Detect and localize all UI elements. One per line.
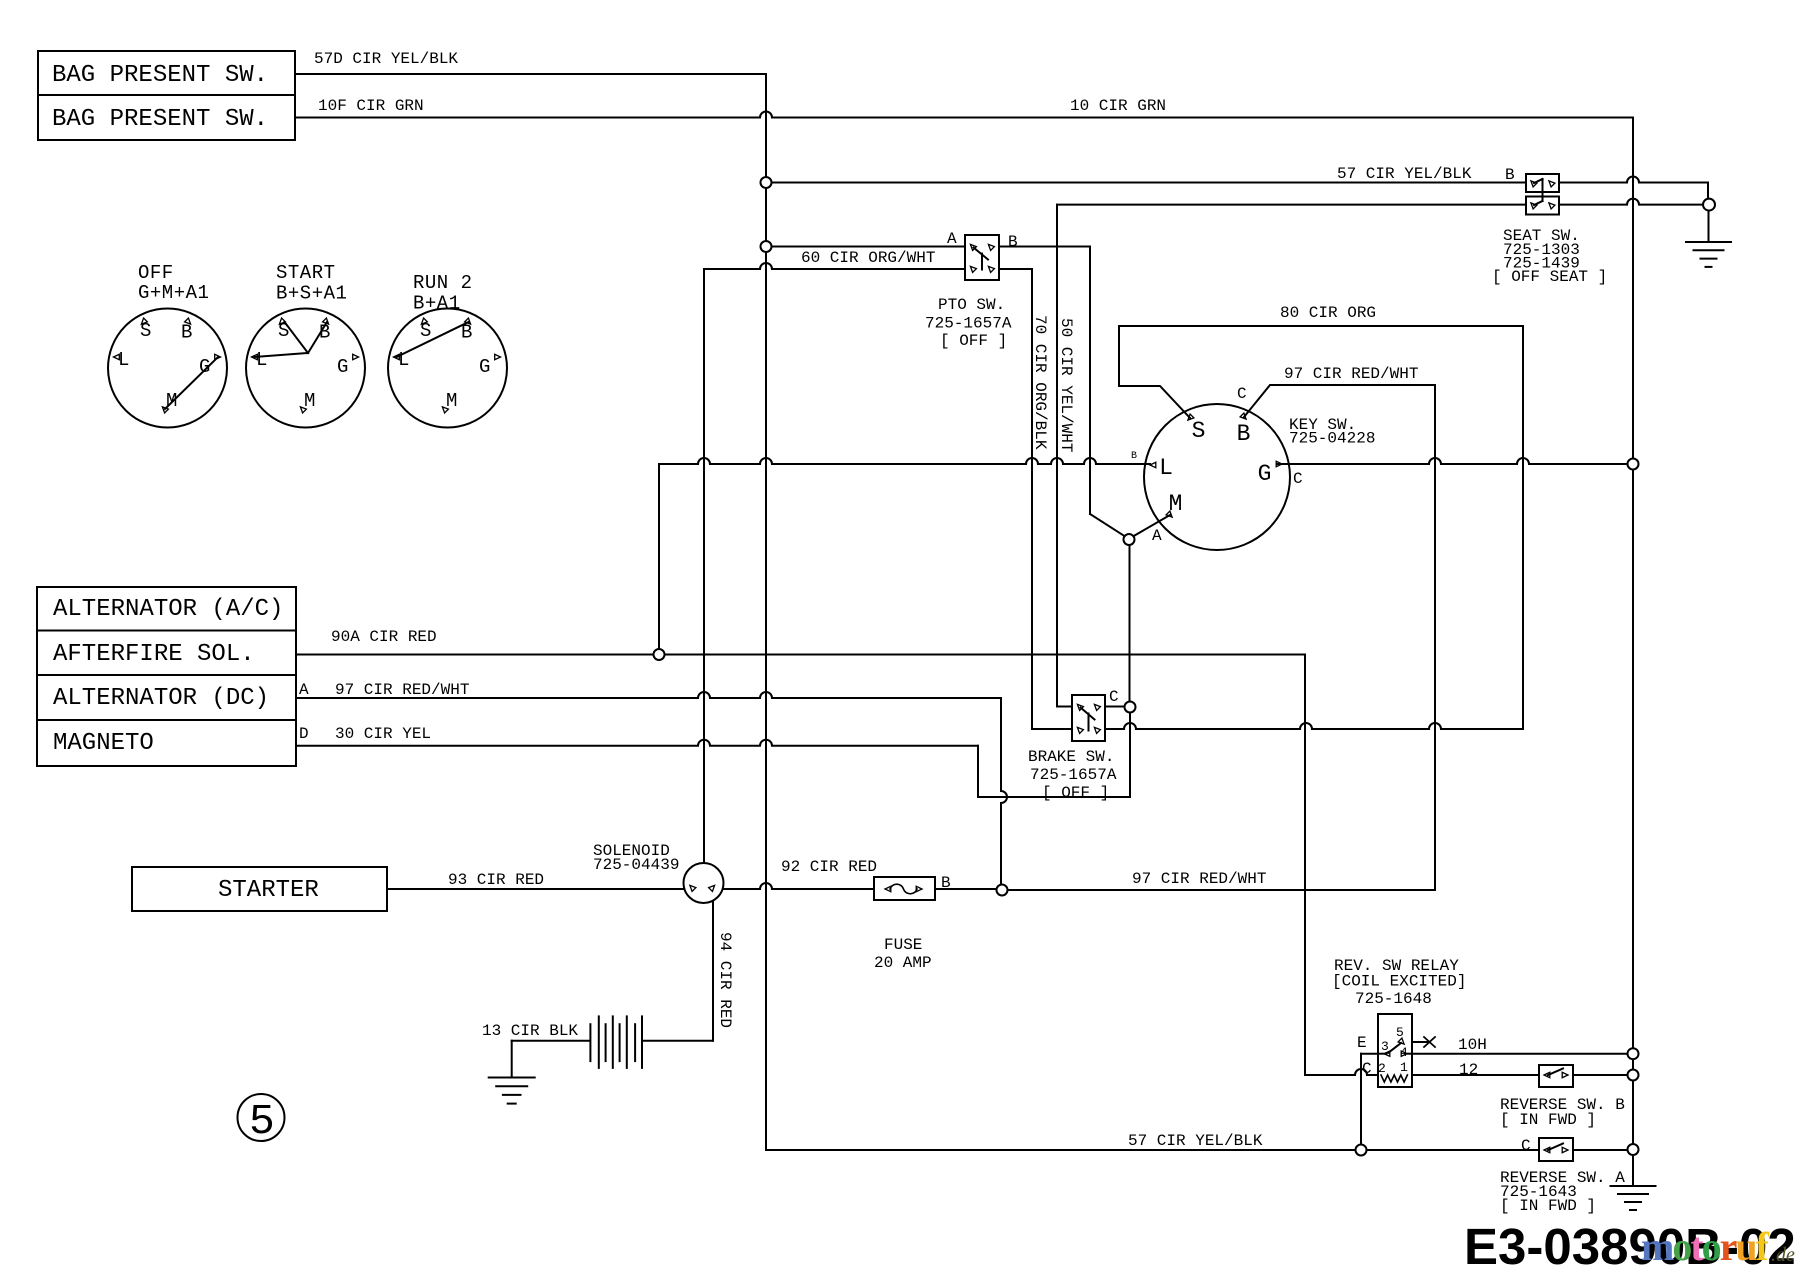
key switch terminal S [1188,414,1194,420]
svg-text:MAGNETO: MAGNETO [53,730,154,757]
RUN 2 terminal B [465,318,471,324]
svg-text:A: A [299,681,309,699]
wire brake top-right pin to node [1105,706,1125,708]
wire key G terminal right to far-right vertical [1277,458,1633,464]
svg-text:80 CIR ORG: 80 CIR ORG [1280,304,1376,322]
wire 97 CIR RED/WHT: alternator DC to bottom junction [296,692,1001,698]
relay pin 4 [1401,1051,1407,1056]
START terminal G [353,354,359,359]
svg-text:90A CIR RED: 90A CIR RED [331,628,437,646]
key switch terminal M [1166,511,1172,517]
svg-text:L: L [398,349,410,371]
component box: alternator(DC) [37,675,296,720]
RUN 2 terminal L [394,354,400,359]
svg-text:S: S [420,320,432,342]
svg-text:.de: .de [1771,1244,1795,1266]
wire 70 CIR ORG/BLK: PTO lower-right down to brake switch [999,268,1032,270]
svg-text:B: B [1131,451,1137,462]
key switch terminal G [1276,461,1282,466]
svg-text:PTO SW.: PTO SW. [938,296,1005,314]
wire key M terminal to node [1132,515,1170,537]
wire 57 CIR YEL/BLK seat upper segment [766,182,1526,184]
OFF contact line [165,357,218,409]
callout circle 5 [238,1094,285,1141]
svg-text:97 CIR RED/WHT: 97 CIR RED/WHT [1132,870,1266,888]
wire E: relay pin3 down to 57 line [1360,1054,1362,1145]
svg-text:B: B [1008,233,1018,251]
wire 97 CIR RED/WHT: key B terminal right and down to bottom line [1244,385,1435,890]
svg-text:12: 12 [1459,1061,1478,1079]
svg-text:57 CIR YEL/BLK: 57 CIR YEL/BLK [1337,165,1472,183]
wire 50 CIR YEL/WHT: seat lower corner down to brake switch [1056,205,1058,707]
ground symbol at battery [489,1077,535,1079]
svg-text:[ OFF ]: [ OFF ] [1042,784,1109,802]
svg-text:M: M [304,390,316,412]
node A below key switch M [1124,534,1135,545]
svg-text:M: M [1169,491,1183,517]
battery B1 plates [598,1016,600,1068]
svg-text:30 CIR YEL: 30 CIR YEL [335,725,431,743]
component box: afterfire sol. [37,631,296,676]
svg-text:[ OFF ]: [ OFF ] [940,332,1007,350]
svg-text:B: B [941,874,951,892]
svg-text:BAG PRESENT SW.: BAG PRESENT SW. [52,62,268,89]
svg-text:ALTERNATOR (A/C): ALTERNATOR (A/C) [53,596,283,623]
node at brake switch common C [1125,702,1136,713]
svg-text:[ OFF SEAT ]: [ OFF SEAT ] [1492,268,1607,286]
svg-text:C: C [1362,1060,1372,1078]
component box: alternator(A/C) [37,587,296,631]
svg-text:G: G [479,356,491,378]
svg-text:97 CIR RED/WHT: 97 CIR RED/WHT [335,681,469,699]
ground symbol bottom right [1611,1185,1656,1187]
START terminal M [300,407,306,413]
svg-text:5: 5 [249,1097,275,1146]
START terminal S [279,318,285,324]
svg-text:B: B [319,322,331,344]
svg-text:70 CIR ORG/BLK: 70 CIR ORG/BLK [1031,315,1049,450]
wire seat lower to ring terminal [1550,199,1703,205]
reverse switch B box [1539,1065,1573,1087]
relay pin3 stub [1378,1053,1386,1055]
X no-connect mark [1424,1037,1435,1047]
relay pin4 stub [1405,1053,1412,1055]
node 10H at right vertical [1628,1048,1639,1059]
key switch terminal L [1150,462,1156,467]
wire 10F/10 CIR GRN: box2 right to far-right vertical [295,112,1633,118]
node at fuse/97 junction [997,885,1008,896]
key switch S1 body circle [1144,404,1290,550]
svg-text:C: C [1521,1137,1531,1155]
svg-text:725-1657A: 725-1657A [925,315,1012,333]
node junction 57D / 60 CIR wire [761,241,772,252]
wire ring terminal to ground [1708,211,1710,242]
RUN 2 contact line [397,322,469,357]
svg-text:725-04439: 725-04439 [593,856,679,874]
component box: starter [132,867,387,911]
svg-text:S: S [1192,418,1206,444]
START contact line [285,322,309,353]
wire 12: relay coil to reverse switch B [1412,1074,1539,1076]
OFF terminal M [162,407,168,413]
seat switch SW3 upper box [1526,174,1559,192]
svg-text:B+S+A1: B+S+A1 [276,283,347,305]
svg-text:START: START [276,262,336,284]
svg-text:10F CIR GRN: 10F CIR GRN [318,97,424,115]
wire 92 CIR RED: solenoid to fuse [724,883,875,889]
component box: bag present switch 1 [38,51,295,95]
ground symbol top right (seat) [1686,241,1731,243]
svg-text:5: 5 [1396,1025,1404,1040]
wire node A down to brake switch node [1129,545,1131,702]
START terminal L [252,354,258,359]
key position diagram: START circle [246,309,365,428]
svg-text:94 CIR RED: 94 CIR RED [716,932,734,1028]
wire PTO pin B down to key M node [999,246,1090,248]
key position diagram: RUN 2 circle [388,309,507,428]
svg-text:50 CIR YEL/WHT: 50 CIR YEL/WHT [1057,318,1075,452]
wire 10H: relay pin4 to right vertical [1412,1053,1627,1055]
wire 97 CIR RED/WHT bottom: node to riser [1008,889,1435,891]
wire 60 CIR ORG/WHT: node to PTO pin A [766,246,965,248]
wire PTO lower-left to solenoid top (vertical x=704) [704,263,965,269]
wire key L terminal left segment with hops [659,458,1150,464]
svg-text:RUN 2: RUN 2 [413,272,473,294]
svg-text:A: A [947,230,957,248]
wire 30 CIR YEL: magneto to brake node [296,740,978,746]
svg-text:S: S [140,320,152,342]
component box: magneto [37,720,296,766]
svg-text:B: B [1505,166,1515,184]
wire reverse switch B to right vertical [1573,1074,1627,1076]
wire 94 CIR RED: solenoid down to battery [712,893,714,1041]
relay lever 3-5 [1388,1043,1401,1053]
solenoid K1 (725-04439) body [684,863,724,903]
OFF terminal L [114,354,120,359]
fuse F1 body [874,877,935,900]
svg-text:G: G [199,356,211,378]
svg-text:4: 4 [1400,1045,1408,1060]
wire 93 CIR RED: starter to solenoid [387,888,684,890]
reverse switch A box (725-1643) [1539,1138,1573,1161]
wire seat lower segment [1057,204,1526,206]
relay coil [1381,1075,1407,1082]
svg-text:57D CIR YEL/BLK: 57D CIR YEL/BLK [314,50,458,68]
seat switch SW3 lower box [1526,197,1559,215]
svg-text:13 CIR BLK: 13 CIR BLK [482,1022,578,1040]
START contact line [255,353,309,357]
RUN 2 terminal M [442,407,448,413]
svg-text:M: M [166,390,178,412]
START terminal B [323,318,329,324]
svg-text:725-04228: 725-04228 [1289,430,1375,448]
svg-text:OFF: OFF [138,262,174,284]
svg-text:FUSE: FUSE [884,936,922,954]
svg-text:[ IN FWD ]: [ IN FWD ] [1500,1197,1596,1215]
svg-text:725-1657A: 725-1657A [1030,766,1117,784]
RUN 2 terminal S [421,318,427,324]
OFF terminal B [185,318,191,324]
svg-text:10 CIR GRN: 10 CIR GRN [1070,97,1166,115]
OFF terminal S [141,318,147,324]
svg-text:[ IN FWD ]: [ IN FWD ] [1500,1111,1596,1129]
svg-text:C: C [1109,688,1119,706]
svg-text:B: B [181,322,193,344]
node on far-right vertical at L-G line [1628,459,1639,470]
svg-text:L: L [118,349,130,371]
svg-text:725-1648: 725-1648 [1355,990,1432,1008]
svg-text:L: L [1159,455,1173,481]
ring terminal at seat ground [1703,199,1715,211]
svg-text:STARTER: STARTER [218,877,319,904]
svg-text:B+A1: B+A1 [413,293,461,315]
START contact line [308,322,327,353]
node 57 at right vertical [1628,1144,1639,1155]
svg-text:1: 1 [1400,1060,1408,1075]
reverse switch relay K2 (725-1648) box [1378,1014,1412,1087]
seat switch mechanical link [1542,179,1544,201]
svg-text:57 CIR YEL/BLK: 57 CIR YEL/BLK [1128,1132,1263,1150]
wire 13 CIR BLK: battery to ground [512,1040,590,1042]
node on 90A wire [654,649,665,660]
wire 90A CIR RED: afterfire to rev relay coil [296,654,1305,656]
relay pin 5 [1398,1038,1404,1044]
brake switch SW2 (725-1657A) [1072,695,1105,741]
svg-text:BAG PRESENT SW.: BAG PRESENT SW. [52,106,268,133]
svg-text:93 CIR RED: 93 CIR RED [448,871,544,889]
svg-text:AFTERFIRE SOL.: AFTERFIRE SOL. [53,641,255,668]
node junction 57D / seat wire [761,177,772,188]
svg-text:3: 3 [1381,1039,1389,1054]
svg-text:10H: 10H [1458,1036,1487,1054]
svg-text:G: G [337,356,349,378]
svg-text:92 CIR RED: 92 CIR RED [781,858,877,876]
svg-text:S: S [278,320,290,342]
svg-text:motoruf: motoruf [1641,1224,1770,1269]
svg-text:2: 2 [1378,1061,1386,1076]
key switch terminal B [1240,413,1246,419]
svg-text:C: C [1237,385,1247,403]
relay pin 3 [1384,1051,1390,1056]
svg-text:E: E [1357,1034,1367,1052]
RUN 2 terminal G [495,354,501,359]
PTO switch SW1 (725-1657A) [965,235,999,280]
key position diagram: OFF circle [108,309,227,428]
svg-text:B: B [461,322,473,344]
node on 57 line below relay [1356,1145,1367,1156]
svg-text:D: D [299,725,309,743]
svg-text:ALTERNATOR (DC): ALTERNATOR (DC) [53,685,269,712]
svg-text:M: M [446,390,458,412]
wire fuse to node [935,888,996,890]
component box: bag present switch 2 [38,95,295,140]
wire 80 CIR ORG: key S terminal loop to brake switch lower-right [1119,326,1523,729]
OFF terminal G [215,354,221,359]
svg-text:BRAKE SW.: BRAKE SW. [1028,748,1114,766]
svg-text:G: G [1258,461,1272,487]
wire 57D CIR YEL/BLK: box1 to corner, down long vertical to bottom 57 line [295,73,766,75]
wire seat upper to ground corner [1550,177,1708,183]
svg-text:L: L [256,349,268,371]
svg-text:B: B [1237,421,1251,447]
wire X stub from relay pin5 [1406,1041,1427,1043]
svg-text:A: A [1152,527,1162,545]
svg-text:C: C [1293,470,1303,488]
svg-text:G+M+A1: G+M+A1 [138,282,209,304]
node 12 at right vertical [1628,1070,1639,1081]
svg-text:[COIL EXCITED]: [COIL EXCITED] [1332,973,1466,991]
svg-text:97 CIR RED/WHT: 97 CIR RED/WHT [1284,365,1418,383]
svg-text:60 CIR ORG/WHT: 60 CIR ORG/WHT [801,249,935,267]
svg-text:20 AMP: 20 AMP [874,954,932,972]
wire reverse switch A to right vertical [1573,1149,1627,1151]
